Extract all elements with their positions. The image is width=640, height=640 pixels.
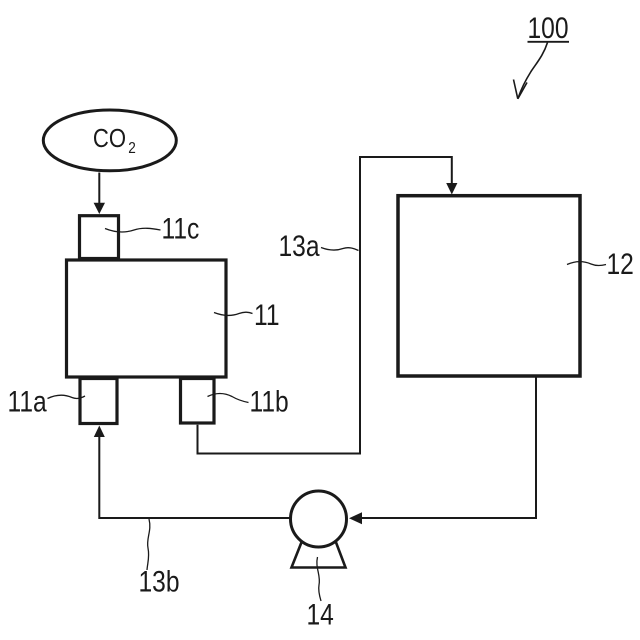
svg-text:11b: 11b [250, 384, 289, 418]
leader to 13a [321, 248, 359, 251]
leader to 11 [214, 312, 253, 315]
leader to 11c [105, 228, 161, 232]
line 13a wire [198, 157, 452, 454]
pump 14 [291, 491, 347, 568]
line 13b wire pump to outlet 11a [99, 437, 290, 518]
svg-text:12: 12 [607, 247, 634, 281]
line 13b arrowhead into outlet 11a [94, 426, 105, 438]
label 100 [528, 11, 570, 45]
svg-text:CO: CO [93, 125, 126, 154]
svg-text:2: 2 [128, 140, 136, 157]
leader arrow from 100 [514, 43, 548, 99]
svg-text:13b: 13b [139, 564, 180, 598]
svg-text:11a: 11a [8, 384, 48, 418]
svg-text:100: 100 [528, 11, 569, 45]
arrow CO2 to inlet 11c [94, 173, 105, 215]
svg-text:13a: 13a [279, 229, 321, 263]
CO2 source ellipse [43, 110, 176, 171]
leader to 11a [48, 395, 86, 398]
outlet 11b [181, 379, 215, 424]
wire tank 12 to pump 14 [360, 378, 536, 519]
leader to 12 [567, 262, 606, 266]
arrowhead into pump 14 [349, 512, 362, 524]
leader to 13b [147, 519, 150, 570]
vessel 11 [67, 260, 227, 377]
line 13a arrowhead into tank 12 [446, 183, 457, 195]
svg-text:11c: 11c [162, 211, 200, 245]
inlet 11c [80, 216, 119, 259]
svg-text:14: 14 [307, 597, 334, 631]
svg-text:11: 11 [254, 298, 280, 332]
leader to 11b [208, 394, 249, 403]
outlet 11a [80, 379, 117, 424]
tank 12 [398, 196, 580, 376]
leader to 14 [317, 557, 321, 601]
